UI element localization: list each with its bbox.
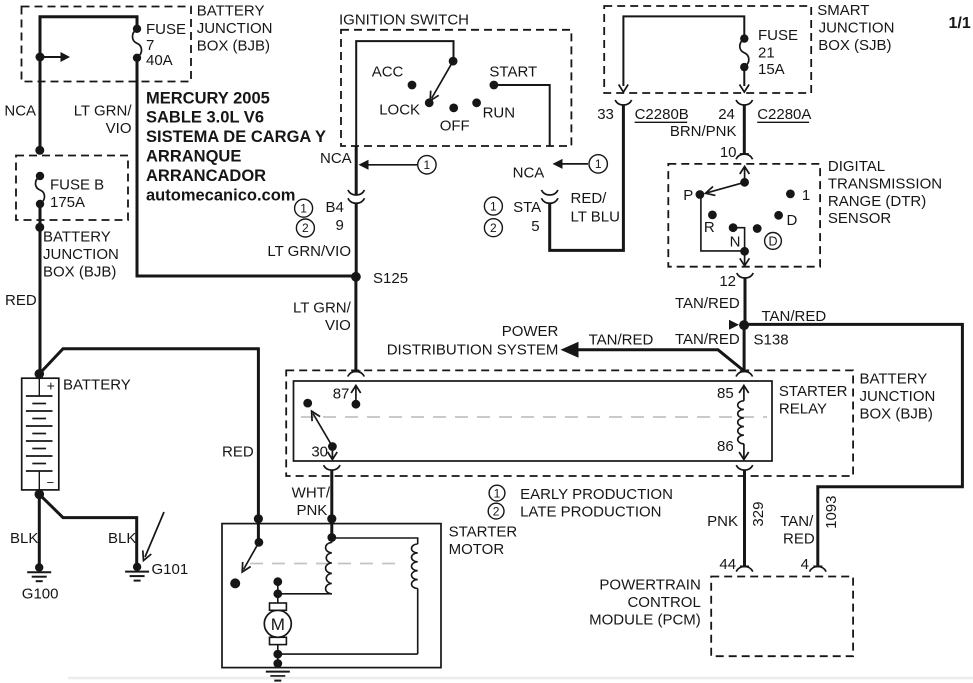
battery junction box (BJB) top-left dashed outline	[22, 7, 192, 82]
contact dot R	[708, 211, 717, 220]
contact dot P	[696, 190, 705, 199]
wire TAN/RED S138 down to relay 85	[743, 325, 746, 371]
label RUN	[483, 105, 515, 122]
svg-text:RUN: RUN	[483, 105, 515, 122]
connector C2280A pin 24	[736, 100, 753, 105]
svg-text:R: R	[704, 219, 715, 236]
label C2280B	[635, 106, 689, 123]
svg-text:RANGE (DTR): RANGE (DTR)	[828, 193, 926, 210]
svg-text:RED/: RED/	[571, 190, 608, 207]
starter pull-in winding top dot	[327, 533, 336, 542]
svg-text:JUNCTION: JUNCTION	[819, 20, 895, 37]
circled 1 left pointer	[359, 156, 437, 174]
label EARLY PRODUCTION	[520, 486, 673, 503]
ignition switch rotor pivot dot	[449, 57, 458, 66]
svg-text:automecanico.com: automecanico.com	[146, 186, 295, 204]
label NCA below ignition left	[320, 150, 352, 167]
svg-text:87: 87	[333, 386, 350, 403]
svg-text:P: P	[683, 187, 693, 204]
circled 2 note	[488, 503, 504, 519]
svg-text:TAN/RED: TAN/RED	[675, 331, 740, 348]
svg-text:LOCK: LOCK	[379, 102, 420, 119]
label circuit 1093	[823, 496, 840, 529]
svg-text:C2280B: C2280B	[635, 106, 689, 123]
svg-text:STA: STA	[513, 199, 541, 216]
relay pin 30 dot	[328, 442, 337, 451]
label RED left	[5, 292, 37, 309]
svg-text:JUNCTION: JUNCTION	[860, 388, 936, 405]
svg-text:86: 86	[717, 438, 734, 455]
flow arrow into S138	[729, 320, 739, 330]
label BLK left	[10, 530, 38, 547]
label 1	[802, 187, 810, 204]
wire BLK to G101	[39, 494, 136, 567]
label POWERTRAIN CONTROL MODULE (PCM)	[589, 577, 701, 629]
svg-text:40A: 40A	[146, 52, 173, 69]
junction dot RED at starter box	[254, 514, 263, 523]
label BLK right	[108, 530, 136, 547]
wire PNK relay 86 to PCM pin 44	[743, 470, 746, 566]
svg-text:BATTERY: BATTERY	[860, 371, 928, 388]
svg-text:2: 2	[490, 221, 497, 235]
label RED/ LT BLU	[571, 190, 620, 226]
page bottom rule	[68, 677, 973, 679]
label 4	[801, 556, 809, 573]
label FUSE 7 40A	[146, 21, 186, 69]
svg-text:9: 9	[335, 217, 343, 234]
starter hold-in winding	[412, 544, 418, 589]
svg-text:DISTRIBUTION SYSTEM: DISTRIBUTION SYSTEM	[387, 342, 559, 359]
circled 1 right pointer	[553, 155, 608, 173]
svg-text:D: D	[787, 212, 798, 229]
motor M symbol	[264, 603, 291, 645]
svg-text:MOTOR: MOTOR	[449, 541, 505, 558]
starter solenoid switch pivot dot	[255, 538, 264, 547]
svg-text:5: 5	[531, 218, 539, 235]
connector C2280B pin 33	[615, 100, 632, 105]
label LT GRN/ VIO mid	[293, 300, 352, 335]
svg-text:PNK: PNK	[707, 513, 738, 530]
svg-text:BOX (SJB): BOX (SJB)	[818, 37, 891, 54]
svg-text:G100: G100	[22, 586, 59, 603]
wire RED/LT BLU from STA 5 to SJB pin 33	[550, 105, 624, 250]
svg-text:BRN/PNK: BRN/PNK	[670, 123, 737, 140]
wire BLK to G100	[38, 494, 41, 567]
label 10	[720, 144, 737, 161]
svg-text:TRANSMISSION: TRANSMISSION	[828, 176, 942, 193]
svg-text:BATTERY: BATTERY	[43, 229, 111, 246]
splice S138 dot	[739, 320, 749, 330]
svg-text:1: 1	[424, 158, 431, 172]
motor stud upper dot	[273, 577, 282, 586]
starter hold-in winding to case	[417, 589, 419, 655]
svg-text:FUSE: FUSE	[758, 27, 798, 44]
label ACC	[372, 64, 404, 81]
label 30	[311, 444, 328, 461]
wire winding to motor stud	[278, 593, 332, 595]
wire NCA ignition to connector B4	[355, 146, 358, 195]
svg-text:RED: RED	[5, 292, 37, 309]
powertrain control module (PCM) dashed box	[711, 577, 853, 657]
label G101	[152, 561, 189, 578]
label TAN/RED left of S138	[675, 331, 740, 348]
relay switch fixed contact dot	[303, 399, 312, 408]
label G100	[22, 586, 59, 603]
label LT GRN/ VIO top	[74, 103, 133, 138]
svg-text:1: 1	[802, 187, 810, 204]
svg-text:+: +	[47, 378, 55, 394]
DTR output junction dot	[740, 247, 749, 256]
contact dot ACC	[408, 81, 417, 90]
wire BRN/PNK	[743, 105, 746, 154]
starter motor ground	[266, 672, 290, 681]
fuse F21 15A	[740, 34, 749, 71]
svg-text:POWER: POWER	[502, 323, 559, 340]
label TAN/RED on power dist wire	[589, 332, 654, 349]
connector pin 12	[737, 273, 754, 278]
label 44	[719, 556, 736, 573]
connector PCM pin 44	[736, 566, 753, 571]
ignition switch dashed box	[341, 30, 571, 146]
fuse FB 175A	[35, 172, 44, 208]
label BATTERY JUNCTION BOX (BJB) right	[860, 371, 936, 423]
svg-text:21: 21	[758, 45, 775, 62]
svg-text:175A: 175A	[50, 194, 85, 211]
junction dot above fuse B box	[35, 146, 44, 155]
contact dot N	[729, 223, 738, 232]
svg-text:CONTROL: CONTROL	[627, 594, 700, 611]
svg-text:FUSE: FUSE	[146, 21, 186, 38]
label 12	[719, 273, 736, 290]
contact dot OFF	[449, 104, 458, 113]
relay pin 86 arrow down	[739, 444, 749, 460]
starter pull-in winding	[326, 538, 332, 594]
svg-text:−: −	[47, 475, 55, 490]
svg-text:MODULE (PCM): MODULE (PCM)	[589, 612, 701, 629]
svg-text:EARLY PRODUCTION: EARLY PRODUCTION	[520, 486, 673, 503]
svg-text:POWERTRAIN: POWERTRAIN	[599, 577, 700, 594]
wire TAN/RED S138 to PCM pin 4	[744, 324, 962, 566]
wire LT GRN/VIO from fuse 7 down to S125	[137, 58, 352, 276]
label PNK	[707, 513, 738, 530]
svg-text:1: 1	[595, 157, 602, 171]
wire LT GRN/VIO S125 to relay 87	[354, 277, 357, 371]
svg-text:30: 30	[311, 444, 328, 461]
svg-text:N: N	[730, 234, 741, 251]
label 24	[718, 106, 735, 123]
svg-text:SABLE 3.0L V6: SABLE 3.0L V6	[146, 109, 264, 127]
svg-text:G101: G101	[152, 561, 189, 578]
svg-text:SMART: SMART	[817, 2, 869, 19]
wire RED battery feed	[39, 204, 42, 374]
svg-text:PNK: PNK	[296, 502, 327, 519]
svg-text:33: 33	[597, 106, 614, 123]
battery negative terminal dot	[35, 490, 45, 500]
svg-text:NCA: NCA	[320, 150, 352, 167]
label BATTERY	[63, 377, 131, 394]
svg-text:S138: S138	[754, 332, 789, 349]
label 85	[717, 385, 734, 402]
digital transmission range (DTR) sensor dashed box	[668, 164, 820, 267]
SJB pin 24 arrow	[740, 85, 750, 93]
svg-text:TAN/RED: TAN/RED	[762, 308, 827, 325]
starter internal dashed separator	[250, 563, 397, 565]
svg-text:ARRANQUE: ARRANQUE	[146, 148, 241, 166]
svg-text:RED: RED	[222, 444, 254, 461]
label 86	[717, 438, 734, 455]
svg-text:LATE PRODUCTION: LATE PRODUCTION	[520, 504, 661, 521]
label RED right	[222, 444, 254, 461]
svg-text:VIO: VIO	[325, 317, 351, 334]
connector DTR pin 10	[736, 154, 753, 159]
svg-text:NCA: NCA	[4, 103, 36, 120]
svg-text:1: 1	[494, 486, 501, 500]
label 33	[597, 106, 614, 123]
svg-text:OFF: OFF	[440, 118, 470, 135]
splice S125 dot	[351, 272, 361, 282]
ignition switch lever	[430, 61, 453, 101]
svg-text:NCA: NCA	[513, 165, 545, 182]
starter switch contact dot	[230, 578, 240, 588]
svg-text:WHT/: WHT/	[292, 485, 331, 502]
label C2280A	[757, 106, 811, 123]
connector STA pin 5 inline	[541, 190, 558, 203]
wire WHT/PNK relay 30 to starter	[330, 470, 333, 537]
wire TAN/RED pin 12 to S138	[744, 278, 747, 325]
connector relay pin 85	[736, 371, 753, 376]
label WHT/ PNK	[292, 485, 331, 520]
svg-text:JUNCTION: JUNCTION	[197, 20, 273, 37]
circled 2 at B4	[296, 219, 314, 237]
label DIGITAL TRANSMISSION RANGE (DTR) SENSOR	[828, 158, 942, 227]
label BATTERY JUNCTION BOX (BJB) top	[197, 3, 273, 55]
relay pin 85 arrow	[739, 386, 749, 401]
relay switch lever	[312, 411, 333, 446]
svg-text:B4: B4	[325, 199, 343, 216]
svg-text:LT GRN/: LT GRN/	[74, 103, 133, 120]
motor stud lower dot	[273, 589, 282, 598]
svg-text:C2280A: C2280A	[757, 106, 811, 123]
relay coil	[738, 401, 744, 444]
relay pin 87 arrow	[351, 386, 361, 409]
svg-text:SENSOR: SENSOR	[828, 210, 892, 227]
label FUSE B 175A	[50, 177, 104, 212]
svg-text:MERCURY 2005: MERCURY 2005	[146, 89, 270, 107]
label S138	[754, 332, 789, 349]
label STARTER RELAY	[779, 383, 848, 418]
svg-text:STARTER: STARTER	[449, 524, 518, 541]
svg-text:10: 10	[720, 144, 737, 161]
svg-text:M: M	[271, 615, 285, 634]
label S125	[373, 270, 408, 287]
contact dot 1	[786, 190, 795, 199]
starter hold-in winding feed	[332, 538, 418, 544]
wire LT GRN/VIO to S125	[355, 203, 358, 276]
svg-text:VIO: VIO	[106, 120, 132, 137]
svg-text:BOX (BJB): BOX (BJB)	[860, 406, 933, 423]
starter motor solid box	[222, 524, 441, 668]
svg-text:SISTEMA DE CARGA Y: SISTEMA DE CARGA Y	[146, 128, 326, 146]
label STA 5	[513, 199, 541, 235]
label STARTER MOTOR	[449, 524, 518, 559]
circled 1 at B4	[295, 199, 313, 217]
starter relay solid box	[294, 381, 773, 461]
label LOCK	[379, 102, 420, 119]
svg-text:IGNITION SWITCH: IGNITION SWITCH	[339, 12, 469, 29]
fuse B dashed box	[16, 156, 128, 221]
label LATE PRODUCTION	[520, 504, 661, 521]
svg-text:12: 12	[719, 273, 736, 290]
junction dot WHT/PNK at starter box	[327, 514, 336, 523]
label POWER DISTRIBUTION SYSTEM	[387, 323, 559, 359]
svg-text:BATTERY: BATTERY	[63, 377, 131, 394]
svg-text:D: D	[768, 235, 777, 249]
fuse F7 40A	[132, 25, 141, 62]
label BRN/PNK	[670, 123, 737, 140]
contact dot START	[490, 81, 499, 90]
svg-text:1: 1	[300, 201, 307, 215]
battery positive terminal dot	[35, 369, 45, 379]
svg-text:ARRANCADOR: ARRANCADOR	[146, 167, 266, 185]
arrow pointing at G101	[143, 512, 164, 561]
svg-text:TAN/: TAN/	[780, 513, 814, 530]
ignition START output wire	[494, 85, 550, 146]
svg-text:LT BLU: LT BLU	[571, 209, 620, 226]
contact dot between N and D	[753, 224, 762, 233]
svg-text:BLK: BLK	[10, 530, 38, 547]
svg-text:BATTERY: BATTERY	[197, 3, 265, 20]
circled D indicator	[765, 233, 782, 250]
svg-text:2: 2	[302, 221, 309, 235]
SJB pin 33 arrow	[619, 85, 629, 93]
svg-text:1/1: 1/1	[949, 15, 971, 32]
circled 1 note	[489, 485, 505, 501]
wire motor case return	[278, 653, 418, 655]
svg-text:TAN/RED: TAN/RED	[589, 332, 654, 349]
label N	[730, 234, 741, 251]
svg-text:FUSE B: FUSE B	[50, 177, 104, 194]
label D	[787, 212, 798, 229]
label TAN/ RED at PCM	[780, 513, 815, 548]
label R	[704, 219, 715, 236]
battery junction box (BJB) relay dashed outline	[286, 370, 853, 476]
svg-text:1093: 1093	[823, 496, 840, 529]
circled 1 at STA	[484, 197, 502, 215]
page number 1/1	[949, 15, 971, 32]
svg-text:ACC: ACC	[372, 64, 404, 81]
motor output wire	[277, 645, 279, 668]
motor ground dot	[273, 659, 282, 668]
svg-text:RELAY: RELAY	[779, 401, 827, 418]
arrow to power distribution system	[561, 342, 745, 371]
svg-text:STARTER: STARTER	[779, 383, 848, 400]
svg-text:44: 44	[719, 556, 736, 573]
svg-text:BOX (BJB): BOX (BJB)	[43, 264, 116, 281]
label START	[489, 64, 537, 81]
connector relay pin 87	[348, 371, 365, 376]
svg-text:START: START	[489, 64, 537, 81]
connector B4 pin 9 inline	[348, 190, 365, 203]
label circuit 329	[750, 502, 767, 527]
label B4 9	[325, 199, 343, 234]
label NCA below ignition right	[513, 165, 545, 182]
motor stud wire	[277, 582, 279, 603]
starter solenoid switch lever	[242, 542, 259, 572]
label TAN/RED right of S138	[762, 308, 827, 325]
svg-text:15A: 15A	[758, 61, 785, 78]
label 87	[333, 386, 350, 403]
label IGNITION SWITCH	[339, 12, 469, 29]
label P	[683, 187, 693, 204]
svg-text:LT GRN/: LT GRN/	[293, 300, 352, 317]
wire BJB feed from fuse 7 to NCA drop	[40, 17, 137, 152]
svg-text:BLK: BLK	[108, 530, 136, 547]
contact dot LOCK	[425, 98, 434, 107]
connector PCM pin 4	[810, 566, 827, 571]
label FUSE 21 15A	[758, 27, 798, 78]
contact dot RUN	[472, 98, 481, 107]
svg-text:DIGITAL: DIGITAL	[828, 158, 885, 175]
svg-text:TAN/RED: TAN/RED	[675, 295, 740, 312]
battery	[22, 378, 59, 491]
label BATTERY JUNCTION BOX (BJB) lower	[43, 229, 119, 281]
svg-text:4: 4	[801, 556, 809, 573]
contact dot D	[774, 211, 783, 220]
smart junction box (SJB) dashed outline	[604, 6, 811, 93]
ignition feed wire	[356, 41, 453, 146]
label TAN/RED above S138	[675, 295, 740, 312]
DTR P output trace	[701, 195, 745, 251]
DTR pin 10 arrow up	[740, 167, 750, 183]
label SMART JUNCTION BOX (SJB)	[817, 2, 894, 54]
svg-text:JUNCTION: JUNCTION	[43, 246, 119, 263]
label NCA left	[4, 103, 36, 120]
svg-text:24: 24	[718, 106, 735, 123]
SJB internal feed wire	[623, 16, 744, 86]
svg-text:2: 2	[493, 504, 500, 518]
relay pin 30 arrow down	[328, 447, 338, 460]
motor bottom junction dot	[273, 650, 282, 659]
DTR pin 12 arrow down	[740, 251, 750, 265]
DTR N output trace	[733, 228, 745, 252]
svg-text:329: 329	[750, 502, 767, 527]
svg-text:1: 1	[490, 199, 497, 213]
DTR selector lever	[706, 182, 745, 195]
junction dot below fuse B box	[35, 223, 44, 232]
svg-text:RED: RED	[783, 531, 815, 548]
svg-text:BOX (BJB): BOX (BJB)	[197, 38, 270, 55]
svg-text:85: 85	[717, 385, 734, 402]
label LT GRN/VIO single line	[267, 243, 351, 260]
ground G100	[27, 563, 51, 581]
DTR rotor pivot dot	[740, 178, 749, 187]
relay internal dashed separator	[301, 416, 767, 418]
title text MERCURY 2005 SABLE	[146, 89, 326, 204]
SJB fuse output wire	[743, 67, 745, 86]
direction arrow inside BJB	[36, 52, 71, 62]
label OFF	[440, 118, 470, 135]
connector relay pin 30	[324, 465, 341, 470]
svg-text:LT GRN/VIO: LT GRN/VIO	[267, 243, 351, 260]
svg-text:S125: S125	[373, 270, 408, 287]
ground G101	[125, 563, 149, 581]
connector relay pin 86	[736, 465, 753, 470]
circled 2 at STA	[484, 219, 502, 237]
wire RED from battery + to starter motor switch	[39, 349, 258, 543]
